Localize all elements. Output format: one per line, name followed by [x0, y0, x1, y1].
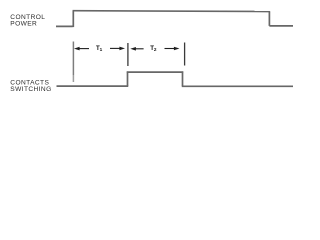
label T1 [96, 45, 103, 52]
label CONTACTS SWITCHING [10, 80, 51, 93]
svg-text:2: 2 [154, 47, 157, 52]
arrow T2 right (points right) [165, 47, 180, 51]
svg-text:SWITCHING: SWITCHING [10, 86, 51, 93]
svg-text:1: 1 [100, 47, 103, 52]
dimension bar at T1 end / T2 start [127, 43, 129, 66]
dimension bar at T1 start [72, 42, 74, 76]
wire contacts low-right segment [182, 85, 293, 87]
label T2 [150, 45, 157, 52]
wire control-power low-right segment [269, 25, 293, 27]
wire control-power rising edge [72, 11, 74, 28]
arrow T1 left (points left) [74, 47, 89, 51]
dimension bar at T2 end [184, 43, 186, 66]
wire contacts rising edge [127, 71, 129, 86]
wire control-power low-left segment [56, 25, 73, 27]
svg-text:POWER: POWER [10, 20, 37, 27]
arrow T1 right (points right) [110, 47, 125, 51]
wire control-power high segment [73, 10, 271, 13]
wire contacts low-left segment [57, 85, 129, 87]
wire contacts high segment [127, 71, 183, 73]
wire control-power falling edge [268, 12, 270, 26]
wire contacts falling edge [182, 71, 184, 86]
arrow T2 left (points left) [130, 47, 143, 51]
label CONTROL POWER [10, 14, 45, 27]
